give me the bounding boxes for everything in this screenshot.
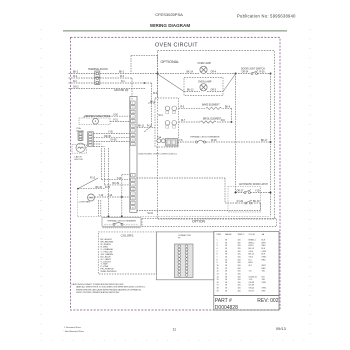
latch switch S2 [244, 190, 251, 194]
svg-text:R-26: R-26 [260, 72, 266, 74]
svg-text:R-12: R-12 [147, 126, 153, 128]
door light switch wire [236, 73, 271, 75]
svg-text:1018200W-7WHT: 1018200W-7WHT [217, 265, 267, 267]
svg-text:BK-11: BK-11 [138, 126, 145, 128]
node latch row1 [270, 192, 272, 194]
svg-text:P1A: P1A [157, 136, 162, 139]
page fold dotted line bottom [41, 340, 310, 342]
bake row wire [179, 108, 232, 122]
svg-text:REV: 002: REV: 002 [257, 298, 278, 304]
broil wire labels [181, 120, 225, 122]
colors box [98, 232, 156, 274]
svg-text:W-18: W-18 [211, 140, 217, 142]
bake element R1 zigzag [206, 107, 221, 109]
thermal breaker row wire [178, 141, 271, 143]
svg-text:BK-6: BK-6 [225, 107, 231, 109]
svg-text:MOTOR: MOTOR [75, 159, 84, 161]
svg-text:918200BK-6: 918200BK-6 [217, 262, 253, 264]
wire EOC to latch row1 [137, 178, 261, 211]
svg-text:1518105Y-35YEL: 1518105Y-35YEL [217, 279, 266, 281]
EOC connector strip P1 [130, 97, 137, 213]
lamp1 wire labels [187, 72, 217, 74]
svg-text:PART #: PART # [215, 298, 232, 304]
lamp2 wire labels [187, 90, 217, 92]
oven lamp 1 [200, 66, 207, 73]
door switch labels [242, 72, 266, 74]
connector P1 pin grid [175, 244, 194, 278]
svg-text:1118200RED: 1118200RED [217, 268, 267, 270]
svg-text:Y-16: Y-16 [99, 195, 104, 197]
svg-text:R-13: R-13 [90, 177, 96, 179]
svg-text:V-31: V-31 [113, 120, 118, 122]
node on fan row [121, 196, 123, 198]
bake wire labels [181, 107, 231, 109]
svg-text:BU-39: BU-39 [113, 183, 120, 185]
svg-text:1418105V-30/V-31VIO: 1418105V-30/V-31VIO [217, 276, 266, 278]
OPTIONAL dashed box [158, 51, 275, 219]
node bus x121 [121, 215, 123, 217]
svg-text:W-3: W-3 [153, 93, 158, 95]
svg-text:518105OR-4ORN: 518105OR-4ORN [217, 251, 267, 253]
svg-text:11: 11 [173, 328, 177, 332]
svg-text:BK-14: BK-14 [187, 72, 194, 74]
oven lamp 2 dashed box [184, 78, 223, 96]
probe wires [84, 116, 130, 121]
svg-text:OR-36: OR-36 [104, 136, 111, 138]
svg-text:OR-27: OR-27 [237, 191, 244, 193]
terminal block TB1 [95, 71, 100, 85]
svg-text:CONV FAN: CONV FAN [79, 201, 91, 204]
latch switch row2 wire [236, 202, 260, 204]
svg-text:BK-2: BK-2 [150, 102, 156, 104]
svg-text:* Non-Illustrated Parts: * Non-Illustrated Parts [64, 330, 84, 333]
node broil right [231, 121, 233, 123]
bottom breaker CB2 [104, 223, 138, 225]
svg-text:Y-10: Y-10 [108, 195, 113, 197]
svg-text:1618105OR-36ORN: 1618105OR-36ORN [217, 282, 267, 284]
svg-text:V-30: V-30 [113, 114, 118, 116]
svg-text:Publication No: 5995638940: Publication No: 5995638940 [237, 14, 296, 19]
relay board connector shaded [166, 139, 178, 147]
breaker wire labels [179, 140, 268, 142]
lamp2 wire [184, 91, 223, 93]
relay K2 contacts [165, 121, 170, 126]
latch motor M1 [76, 143, 85, 152]
page fold dotted line right [309, 29, 311, 341]
svg-text:BAKE ELEMENT: BAKE ELEMENT [202, 104, 220, 107]
svg-text:GROUND (M): GROUND (M) [114, 90, 129, 92]
svg-text:DOOR LIGHT SWITCH: DOOR LIGHT SWITCH [241, 68, 265, 70]
svg-text:R-14: R-14 [105, 187, 111, 189]
svg-text:118105BK/BK-1BLK: 118105BK/BK-1BLK [217, 240, 266, 242]
latch row2 labels [237, 201, 261, 203]
diagonal wire to lamp2 right [223, 74, 236, 92]
svg-text:# Functional Parts: # Functional Parts [64, 326, 81, 329]
door light switch S1 [251, 71, 258, 75]
svg-text:W-1: W-1 [120, 76, 125, 78]
wire left vertical to latch [235, 74, 237, 193]
relay K1 contacts [157, 106, 177, 143]
EOC connector strip P2 pins below [131, 174, 135, 210]
svg-text:BK-2: BK-2 [73, 72, 79, 74]
wire table header [217, 233, 265, 236]
svg-text:WIRING DIAGRAM: WIRING DIAGRAM [150, 23, 190, 28]
svg-text:318105R/R-3RED: 318105R/R-3RED [217, 245, 267, 247]
svg-text:BK-1: BK-1 [119, 72, 125, 74]
EOC-relay wire labels [138, 102, 163, 128]
P1A wires to EOC [94, 134, 130, 142]
latch motor wires down [94, 144, 130, 216]
svg-text:OVEN CIRCUIT: OVEN CIRCUIT [155, 42, 198, 48]
svg-text:OPTIONAL: OPTIONAL [161, 60, 180, 64]
temperature probe RT1 [93, 118, 99, 124]
svg-text:OR-5: OR-5 [211, 90, 217, 92]
node conv fan [77, 188, 79, 190]
svg-text:GY-29: GY-29 [237, 201, 244, 203]
svg-text:R-1: R-1 [121, 81, 125, 83]
svg-text:ITEMGAUGETEMP CCOLORGA: ITEMGAUGETEMP CCOLORGA [217, 233, 265, 236]
wire N from terminal block [69, 77, 95, 79]
svg-text:W/BK-WHT/BLK: W/BK-WHT/BLK [101, 271, 118, 273]
svg-text:OVEN LAMP: OVEN LAMP [198, 62, 212, 65]
relay board dashed box [155, 98, 179, 147]
svg-text:W-7: W-7 [181, 120, 186, 122]
oven lamp 2 [200, 84, 207, 91]
diagonal wire to lamp2 left [158, 74, 185, 92]
conv fan wire labels [90, 177, 113, 197]
temperature probe dashed box [79, 118, 110, 125]
svg-text:BROIL ELEMENT: BROIL ELEMENT [203, 118, 222, 120]
wire from EOC to relay board [137, 126, 156, 128]
wire from lamp node down to relay board [157, 75, 159, 98]
svg-text:CAUTION:DISCONNECT POWER BEFOR: CAUTION:DISCONNECT POWER BEFORE SERVICIN… [72, 283, 125, 286]
connector section box [156, 232, 214, 280]
latch switch row1 wire [236, 192, 271, 194]
svg-text:OVEN LAMP: OVEN LAMP [198, 81, 212, 84]
svg-text:Y-35: Y-35 [108, 132, 113, 134]
svg-text:P1: P1 [178, 237, 181, 239]
svg-text:VERIFY PROPER OPERATION AFTER: VERIFY PROPER OPERATION AFTER SERVICING. [76, 291, 120, 294]
ground wire [69, 88, 146, 90]
wire L1 from terminal block [69, 74, 158, 133]
svg-text:AUTOMATIC DOOR LATCH: AUTOMATIC DOOR LATCH [239, 183, 268, 186]
wire loop over title [131, 55, 158, 73]
svg-text:218105W/W-2WHT: 218105W/W-2WHT [217, 242, 267, 244]
svg-text:OPTION: OPTION [192, 219, 206, 223]
broil element R2 zigzag [201, 121, 216, 123]
svg-text:THERMAL CIRCUIT BREAKER: THERMAL CIRCUIT BREAKER [107, 220, 136, 223]
caution text [72, 283, 146, 294]
latch switch S3 [245, 200, 252, 204]
wire L2 from terminal block [69, 82, 95, 84]
svg-text:OR-24: OR-24 [242, 72, 249, 74]
thermal circuit breaker box [102, 218, 141, 227]
svg-text:W-41: W-41 [148, 213, 154, 215]
svg-text:BK-13: BK-13 [187, 90, 194, 92]
OPTION dashed box [142, 219, 277, 227]
svg-text:W-4: W-4 [159, 115, 164, 117]
pin tick strip [102, 227, 141, 229]
svg-text:CFES3025PSA: CFES3025PSA [155, 12, 183, 17]
wire right vertical from door switch [270, 74, 272, 217]
junction node at lamp bus [157, 73, 159, 75]
svg-text:TERMINAL BLOCK: TERMINAL BLOCK [88, 68, 108, 71]
svg-text:THERMAL CIRCUIT BREAKER: THERMAL CIRCUIT BREAKER [190, 136, 220, 139]
svg-text:D0004828: D0004828 [215, 305, 238, 311]
fan row vertical drops [99, 175, 130, 217]
convection fan diagonal wire [78, 178, 98, 189]
svg-text:ELECTRONIC OVEN CONTROL (EOC): ELECTRONIC OVEN CONTROL (EOC) [139, 154, 177, 156]
svg-text:Y-8: Y-8 [179, 140, 183, 142]
node bus x108.5 [108, 215, 110, 217]
svg-text:OR-4: OR-4 [211, 72, 217, 74]
svg-text:BK-15: BK-15 [96, 187, 103, 189]
svg-text:Y-28: Y-28 [255, 191, 260, 193]
lower area dashed box [78, 189, 271, 217]
svg-text:GY-38: GY-38 [110, 140, 117, 142]
svg-text:09/13: 09/13 [276, 326, 286, 331]
svg-text:LABEL ALL WIRES PRIOR TO DISCO: LABEL ALL WIRES PRIOR TO DISCONNECTION W… [76, 286, 146, 289]
conv fan wire row [78, 189, 130, 197]
convection fan motor M2 [88, 194, 95, 201]
header rule [63, 30, 287, 32]
svg-text:818200R-5RED: 818200R-5RED [217, 259, 267, 261]
svg-text:T-40: T-40 [117, 178, 122, 180]
terminal block wire labels [73, 72, 129, 92]
svg-text:BU-30: BU-30 [253, 201, 260, 203]
svg-text:WIRING ERRORS CAN CAUSE IMPROP: WIRING ERRORS CAN CAUSE IMPROPER AND DAN… [76, 288, 142, 291]
wire table box [214, 232, 279, 296]
svg-text:1918105GY-29GRY: 1918105GY-29GRY [217, 290, 267, 292]
page fold dotted line left [40, 29, 42, 341]
P1A connector strips [78, 132, 94, 147]
svg-text:COLORS: COLORS [121, 234, 134, 238]
wire EOC bottom to latch row2 [137, 210, 261, 212]
svg-text:418105BK-14BLK: 418105BK-14BLK [217, 248, 266, 250]
colors list [101, 238, 118, 273]
latch dashed box [228, 187, 261, 213]
junction node door switch [235, 73, 237, 75]
svg-text:1818105OR-24ORN: 1818105OR-24ORN [217, 288, 267, 290]
svg-text:W-2: W-2 [73, 76, 78, 78]
latch motor dashed box [72, 145, 86, 154]
latch row1 labels [237, 191, 261, 193]
svg-text:1314105: 1314105 [217, 273, 241, 275]
node on L2 [144, 82, 146, 84]
part number box [214, 296, 279, 311]
svg-text:1218105Y-8YEL: 1218105Y-8YEL [217, 271, 266, 273]
svg-text:618105BK-13BLK: 618105BK-13BLK [217, 254, 266, 256]
main outer dashed frame [71, 37, 281, 310]
svg-text:718105OR-5ORN: 718105OR-5ORN [217, 257, 267, 259]
node right of door switch [270, 73, 272, 75]
svg-text:1718105GY-38: 1718105GY-38 [217, 285, 254, 287]
wire table rows [217, 240, 267, 293]
svg-text:BK-17: BK-17 [261, 140, 268, 142]
relay K3 contacts [157, 139, 161, 143]
broil row wire [179, 121, 232, 123]
svg-text:GN-2: GN-2 [73, 87, 79, 89]
lamp bus wire [158, 73, 236, 75]
thermal breaker CB1 [195, 140, 205, 143]
probe wire labels [113, 114, 118, 121]
relay pin squares row1 [166, 111, 176, 128]
P1A wire labels [104, 132, 117, 142]
node breaker to vertical [270, 141, 272, 143]
